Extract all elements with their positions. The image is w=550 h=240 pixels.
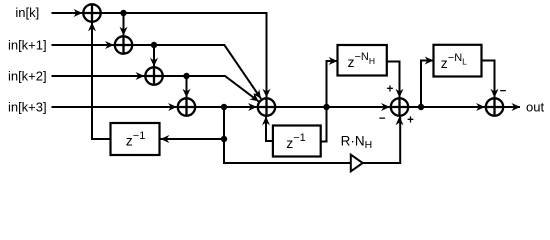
svg-text:+: +	[387, 84, 394, 96]
svg-text:−: −	[379, 113, 386, 125]
svg-text:in[k]: in[k]	[15, 5, 39, 20]
svg-text:in[k+2]: in[k+2]	[8, 69, 47, 84]
svg-text:−: −	[500, 86, 507, 98]
svg-text:in[k+3]: in[k+3]	[8, 100, 47, 115]
svg-text:in[k+1]: in[k+1]	[8, 38, 47, 53]
svg-text:R·NH: R·NH	[341, 134, 373, 152]
svg-text:+: +	[407, 114, 414, 126]
svg-text:out: out	[526, 100, 544, 115]
